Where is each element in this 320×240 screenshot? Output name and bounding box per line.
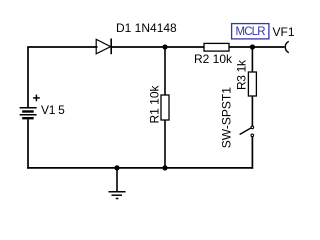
resistor R1 bbox=[161, 47, 169, 168]
svg-text:MCLR: MCLR bbox=[236, 26, 266, 38]
wire switch bottom to bottom rail bbox=[251, 137, 253, 169]
resistor R3 bbox=[248, 47, 256, 126]
svg-text:R3 1k: R3 1k bbox=[235, 59, 249, 90]
node junction dot (R3 top) bbox=[250, 44, 255, 49]
diode D1 bbox=[96, 39, 111, 55]
label box MCLR bbox=[232, 24, 269, 39]
battery plus sign bbox=[33, 95, 40, 102]
svg-text:SW-SPST1: SW-SPST1 bbox=[220, 87, 234, 148]
switch SW-SPST1 bbox=[240, 126, 254, 137]
svg-text:V1 5: V1 5 bbox=[41, 103, 65, 117]
wire top-left vertical (battery + to top rail) bbox=[27, 47, 29, 107]
svg-text:VF1: VF1 bbox=[273, 25, 295, 39]
wire top rail middle (diode cathode to R2) bbox=[111, 46, 205, 48]
wire top rail left (corner to diode anode) bbox=[27, 46, 97, 48]
svg-text:R1 10k: R1 10k bbox=[147, 84, 161, 123]
node junction dot (R1 top) bbox=[162, 44, 167, 49]
terminal VF1 arc bbox=[285, 41, 289, 52]
wire top rail right (R2 to VF1 terminal) bbox=[229, 46, 285, 48]
node junction dot (ground) bbox=[114, 165, 119, 170]
node junction dot (R1 bottom) bbox=[162, 165, 167, 170]
ground bbox=[109, 168, 126, 199]
wire bottom rail bbox=[27, 167, 253, 169]
battery V1 bbox=[20, 108, 37, 118]
svg-text:R2 10k: R2 10k bbox=[194, 52, 233, 66]
svg-text:D1 1N4148: D1 1N4148 bbox=[116, 21, 177, 35]
wire left vertical lower (battery - to bottom rail) bbox=[27, 119, 29, 168]
resistor R2 body bbox=[204, 43, 229, 51]
